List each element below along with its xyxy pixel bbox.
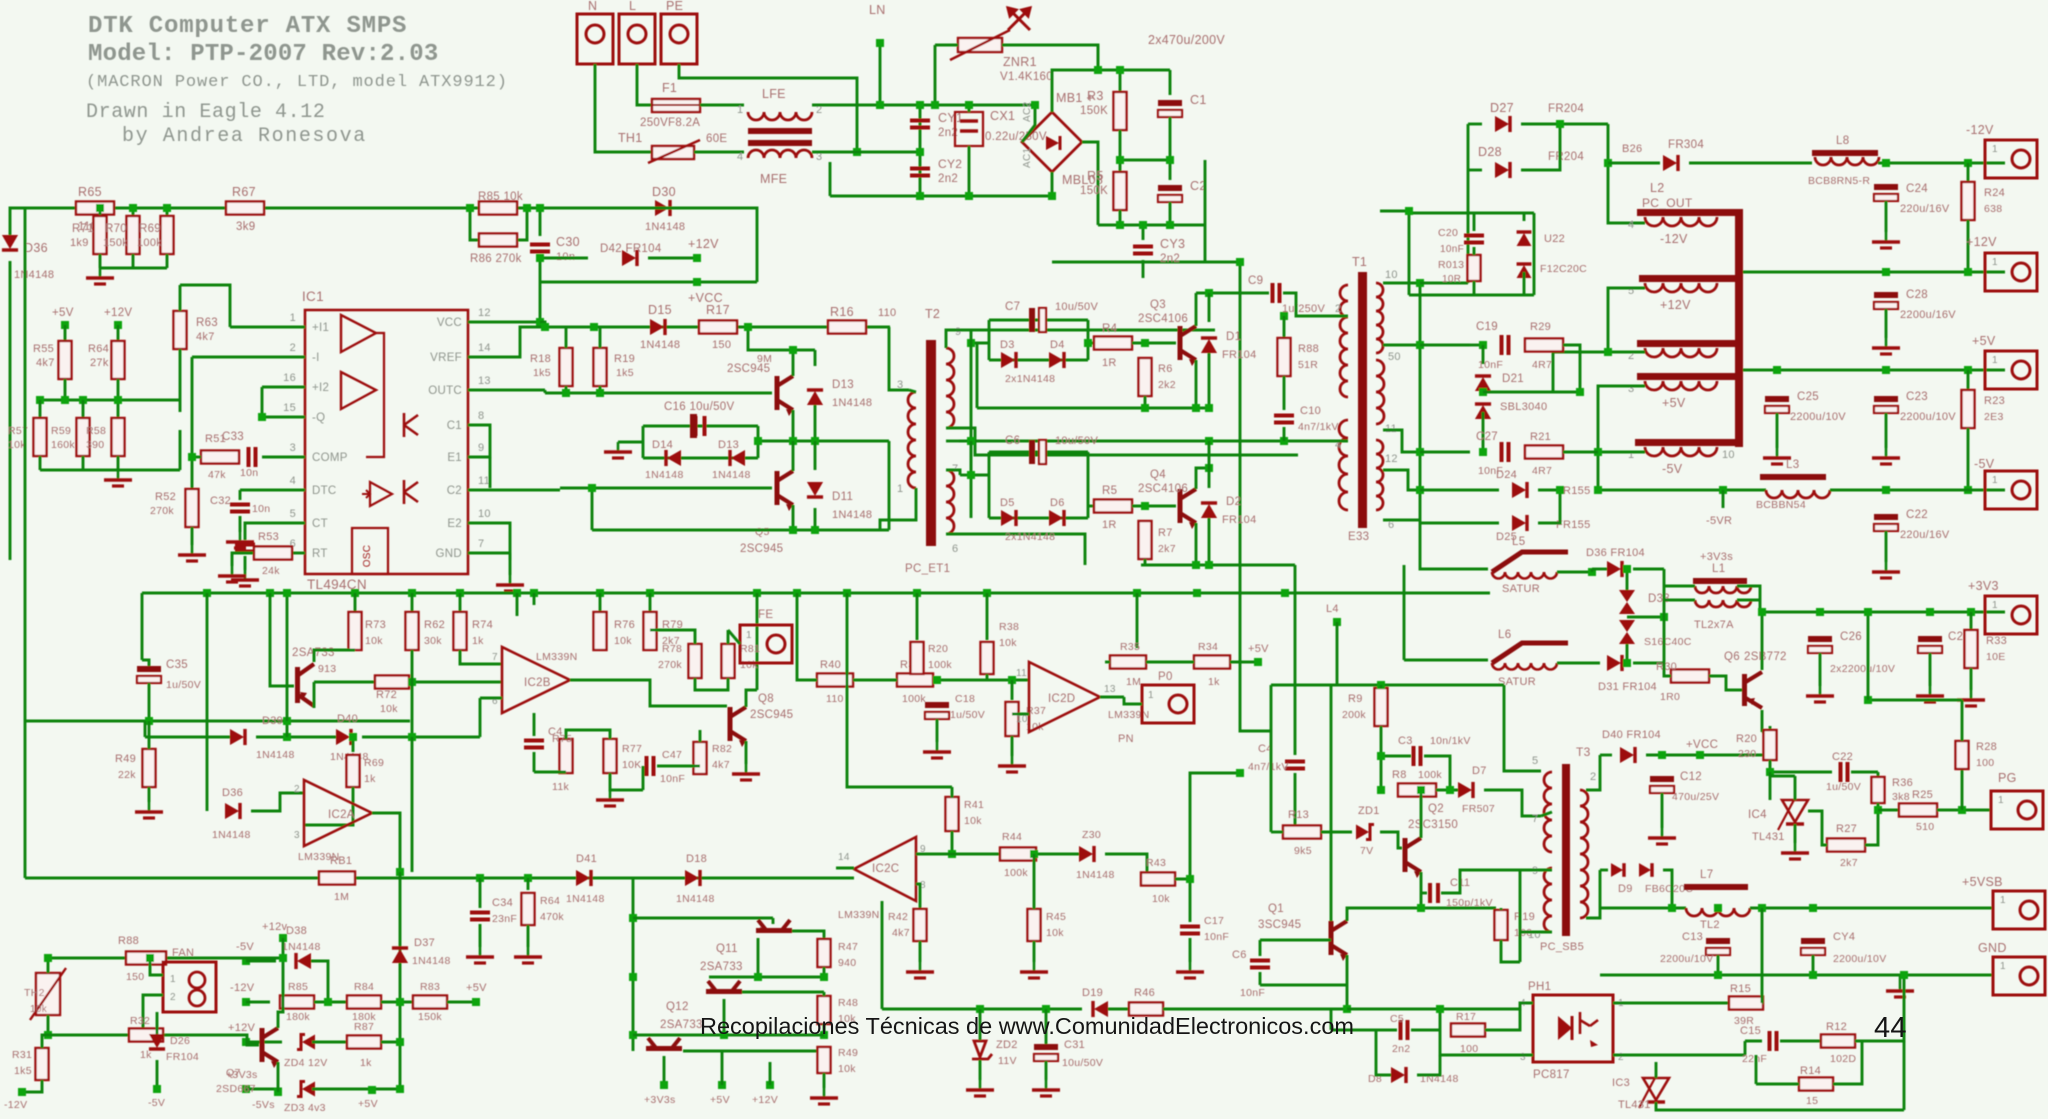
wire -12V out a: [1608, 162, 1660, 165]
wire x: [1722, 599, 1725, 602]
svg-text:+12V: +12V: [688, 237, 719, 251]
wire R35 out: [1146, 661, 1168, 664]
wire rail593 left drop: [141, 593, 144, 660]
wire Q12 base to R48: [742, 991, 824, 994]
wire TH2 top: [47, 958, 50, 973]
wire R44 out: [1036, 853, 1079, 856]
error amplifier 2 inside IC1: [341, 372, 376, 409]
junction ZD3/D37: [396, 1085, 404, 1093]
node +3V3s: [660, 1081, 668, 1089]
wire Q2 collector up: [1420, 790, 1423, 838]
svg-text:C24: C24: [1906, 183, 1928, 195]
wire stub: [539, 257, 542, 260]
svg-text:3: 3: [294, 830, 300, 841]
wire R78 top: [650, 630, 695, 644]
wire D28 lead: [1468, 169, 1482, 172]
svg-text:+12V: +12V: [104, 307, 132, 319]
wire plus up: [1097, 45, 1100, 70]
svg-text:L6: L6: [1498, 629, 1511, 641]
diode D11: [807, 482, 823, 497]
wire Q1 coll row: [1347, 908, 1421, 921]
ground R64: [514, 947, 542, 963]
junction R55 bottom: [61, 396, 69, 404]
varistor ZNR1: [950, 30, 1010, 60]
svg-text:3k9: 3k9: [236, 221, 255, 233]
ground divider: [86, 268, 114, 284]
shunt regulator IC4 TL431: [1778, 798, 1808, 830]
junction snub mid: [754, 437, 762, 445]
svg-text:CY2: CY2: [938, 157, 962, 171]
wire TH2 bottom: [47, 1015, 50, 1035]
ground C22b: [1872, 562, 1900, 578]
wire far-left bus: [24, 208, 27, 878]
wire Q2 collector: [792, 441, 795, 471]
svg-text:R38: R38: [999, 621, 1019, 633]
wire R70 bottom: [132, 254, 135, 268]
transformer T2 core: [926, 340, 936, 546]
thermistor TH1: [648, 140, 700, 163]
svg-text:IC2B: IC2B: [524, 677, 551, 689]
wire R3-R5: [1119, 130, 1122, 172]
wire D21 mid out: [1483, 391, 1580, 394]
wire Q8 collector: [746, 690, 757, 707]
node +5V e: [472, 998, 480, 1006]
junction C35/721: [145, 717, 153, 725]
svg-text:+5V: +5V: [358, 1098, 378, 1110]
junction R23 bottom: [1964, 486, 1972, 494]
svg-text:160k: 160k: [51, 439, 75, 451]
svg-text:R58: R58: [86, 425, 106, 437]
junction CY2 bottom: [916, 192, 924, 200]
svg-text:L: L: [629, 0, 636, 13]
svg-text:R63: R63: [196, 317, 218, 329]
resistor R44: [1000, 848, 1036, 861]
capacitor C19: [1502, 335, 1509, 355]
transistor Q2 2SC945: [775, 471, 794, 511]
svg-text:1N4148: 1N4148: [212, 829, 251, 841]
wire C1 top: [1169, 70, 1172, 95]
svg-text:+I2: +I2: [312, 382, 329, 394]
wire D19 out: [1108, 1008, 1128, 1011]
wire w5-w2 series: [1608, 288, 1645, 352]
svg-text:7: 7: [492, 652, 498, 663]
wire snub row2 a: [1420, 451, 1470, 454]
inductor L3 winding: [1766, 490, 1830, 498]
junction box1 right: [1084, 339, 1092, 347]
wire D30 out: [1633, 568, 1664, 571]
ground C28: [1872, 338, 1900, 354]
connector -12V: [1985, 140, 2037, 178]
junction emitter mid: [789, 437, 797, 445]
wire R88-C10: [1283, 376, 1286, 410]
svg-text:by Andrea Ronesova: by Andrea Ronesova: [122, 125, 367, 148]
svg-text:L4: L4: [1326, 603, 1339, 615]
resistor R30: [1671, 670, 1709, 683]
wire box1 to rail: [976, 343, 979, 408]
wire IC2C apex stub: [836, 867, 854, 870]
svg-text:R62: R62: [424, 619, 445, 631]
ground C23: [1872, 448, 1900, 464]
wire pin10 E2: [468, 523, 510, 560]
wire T2 prim bottom: [880, 488, 916, 530]
wire C10 bottom: [1283, 427, 1286, 441]
wire gnd drop: [509, 553, 512, 575]
wire pins 8-9: [468, 425, 490, 457]
wire R36 top: [1877, 772, 1880, 778]
junction CX1 bottom: [965, 192, 973, 200]
svg-text:L5: L5: [1512, 536, 1525, 548]
inductor L8 winding: [1815, 157, 1879, 165]
svg-text:3k8: 3k8: [1892, 791, 1910, 803]
capacitor CX1: [955, 112, 983, 146]
svg-text:47k: 47k: [208, 469, 226, 481]
resistor R35: [1110, 656, 1146, 669]
wire T1 pin2 in: [1330, 315, 1348, 318]
svg-text:C13: C13: [1682, 931, 1703, 943]
svg-text:10n: 10n: [252, 503, 270, 515]
svg-text:BCBBN54: BCBBN54: [1756, 499, 1806, 511]
wire Q11 base to R47: [792, 931, 824, 938]
svg-text:IC2A: IC2A: [328, 809, 355, 821]
junction R7 top: [1141, 502, 1149, 510]
transformer T1 secondary 1: [1376, 283, 1383, 353]
svg-text:RT: RT: [312, 548, 328, 560]
svg-text:C30: C30: [556, 235, 580, 249]
resistor R62: [406, 612, 419, 650]
svg-text:1k5: 1k5: [616, 367, 634, 379]
capacitor CY3: [1133, 247, 1153, 254]
resistor R39: [897, 674, 933, 687]
wire R58 top: [117, 400, 120, 418]
svg-text:15: 15: [283, 402, 296, 414]
svg-text:R78: R78: [662, 643, 682, 655]
svg-text:C3: C3: [1398, 735, 1413, 747]
wire R36 bottom: [1877, 803, 1880, 810]
svg-text:R87: R87: [354, 1021, 374, 1033]
junction R15 top: [1758, 904, 1766, 912]
inductor L2 bar w2: [1637, 340, 1735, 347]
ground CT: [231, 570, 259, 586]
svg-text:2n2: 2n2: [1392, 1043, 1410, 1055]
wire left drop 530: [591, 488, 594, 530]
wire v412 down: [411, 737, 414, 872]
svg-text:+3V3s: +3V3s: [644, 1094, 676, 1106]
svg-text:3: 3: [897, 379, 903, 391]
wire to IC2C: [710, 877, 854, 880]
junction C23 top: [1882, 366, 1890, 374]
wire vcc to rail: [540, 322, 545, 327]
wire F1 to LFE: [700, 104, 744, 107]
svg-text:100k: 100k: [902, 693, 926, 705]
svg-text:4: 4: [1628, 219, 1634, 231]
junction fb: [188, 453, 196, 461]
wire Q2 emitter down: [1420, 872, 1423, 893]
svg-text:C17: C17: [1204, 915, 1224, 927]
ground C26: [1806, 686, 1834, 702]
junction ZNR1 rail: [931, 101, 939, 109]
junction PH1 pin3: [1436, 1005, 1444, 1013]
resistor R70: [127, 216, 140, 254]
junction R71 top: [96, 204, 104, 212]
svg-text:+I1: +I1: [312, 322, 329, 334]
junction Q6 coll node: [1766, 751, 1774, 759]
wire long rail 593: [142, 592, 1490, 595]
resistor R25: [1899, 804, 1937, 817]
svg-text:FR204: FR204: [1548, 151, 1584, 163]
svg-text:C2: C2: [447, 485, 462, 497]
svg-text:2200u/10V: 2200u/10V: [1790, 411, 1846, 423]
svg-text:10: 10: [1385, 269, 1398, 281]
svg-text:-5V: -5V: [1662, 462, 1683, 476]
junction rail-R19: [590, 323, 598, 331]
svg-text:7: 7: [1532, 813, 1538, 825]
svg-text:22k: 22k: [118, 769, 136, 781]
junction Q6 emitter: [1758, 608, 1766, 616]
wire tap10 link: [1420, 282, 1468, 285]
wire ZD4 in: [246, 1041, 282, 1044]
svg-text:-I: -I: [312, 352, 320, 364]
wire 534 stub: [533, 593, 536, 605]
svg-text:1u/50V: 1u/50V: [1826, 781, 1861, 793]
svg-text:913: 913: [318, 663, 336, 675]
resistor R24: [1962, 182, 1975, 220]
svg-text:R28: R28: [1976, 741, 1997, 753]
svg-text:60E: 60E: [706, 133, 727, 145]
wire Q11 coll: [772, 918, 775, 924]
svg-text:CT: CT: [312, 518, 328, 530]
wire pin15: [262, 387, 305, 417]
junction D33 bottom: [1623, 659, 1631, 667]
resistor R18: [560, 348, 573, 386]
junction C22 top: [1882, 486, 1890, 494]
wire q7 em stub: [277, 1085, 280, 1092]
wire R49 top: [148, 721, 151, 749]
resistor R4: [1094, 337, 1132, 350]
wire R81 top: [727, 630, 730, 644]
junction tap12: [1416, 486, 1424, 494]
junction 1137: [1133, 589, 1141, 597]
svg-text:0.22u/250V: 0.22u/250V: [985, 131, 1047, 143]
svg-text:4k7: 4k7: [892, 927, 910, 939]
svg-text:1R: 1R: [1102, 357, 1117, 369]
ground Q8: [732, 764, 760, 780]
diode D15: [650, 319, 665, 335]
wire pin11 C2: [468, 489, 560, 492]
svg-text:BCB8RN5-R: BCB8RN5-R: [1808, 175, 1870, 187]
svg-text:LN: LN: [869, 3, 886, 17]
wire Q12 emitter: [723, 999, 726, 1035]
wire snub row2 b: [1563, 451, 1598, 454]
junction D1 top: [1205, 289, 1213, 297]
svg-text:R16: R16: [830, 305, 854, 319]
wire C12 bottom: [1661, 793, 1664, 828]
wire Q2 emitter: [792, 505, 795, 530]
svg-text:100: 100: [1976, 757, 1994, 769]
junction R69 top: [163, 204, 171, 212]
wire C6b top: [1259, 940, 1262, 956]
resistor R67: [226, 202, 264, 215]
junction Q2 emitter: [789, 526, 797, 534]
wire C34 bottom: [479, 924, 482, 947]
junction fan pin1: [146, 954, 154, 962]
svg-text:ZD4 12V: ZD4 12V: [284, 1057, 328, 1069]
capacitor C12: [1650, 776, 1674, 793]
capacitor C3: [1414, 746, 1421, 766]
svg-text:2SB772: 2SB772: [1744, 651, 1787, 663]
wire R79 top: [649, 593, 652, 612]
capacitor C4: [524, 741, 544, 748]
wire c4 stub: [516, 593, 519, 616]
resistor R17: [699, 321, 737, 334]
svg-text:D6: D6: [1050, 497, 1065, 509]
svg-text:(MACRON Power CO., LTD, model: (MACRON Power CO., LTD, model ATX9912): [86, 73, 508, 92]
svg-text:R47: R47: [838, 941, 858, 953]
resistor R5b: [1094, 500, 1132, 513]
svg-text:1u/50V: 1u/50V: [950, 709, 985, 721]
junction plus: [1094, 66, 1102, 74]
svg-text:C22: C22: [1832, 751, 1853, 763]
op-amp IC1 TL494CN box: [305, 310, 468, 574]
svg-text:10k: 10k: [30, 1004, 48, 1015]
wire IC2A out: [372, 813, 400, 872]
junction R76 rail: [596, 589, 604, 597]
junction box2: [967, 471, 975, 479]
svg-text:200k: 200k: [1342, 709, 1366, 721]
wire R76 top: [599, 593, 602, 612]
wire ZNR1 left drop: [934, 45, 937, 105]
wire c5 row in: [1331, 1029, 1376, 1032]
wire R55 top: [64, 325, 67, 341]
svg-text:N: N: [588, 0, 597, 13]
capacitor C31: [1034, 1044, 1058, 1061]
wire D21 lead: [1482, 345, 1485, 364]
wire R41 bottom: [951, 831, 954, 854]
wire R18 top: [565, 327, 568, 348]
wire D33 top lead: [1626, 569, 1629, 590]
resistor R85: [479, 202, 517, 215]
ground C24: [1872, 232, 1900, 248]
svg-text:9M: 9M: [757, 353, 772, 365]
wire C4 top: [533, 713, 536, 736]
svg-text:250VF8.2A: 250VF8.2A: [640, 117, 700, 129]
svg-text:2SA733: 2SA733: [660, 1019, 703, 1031]
svg-text:R20: R20: [1736, 733, 1757, 745]
wire R69b top: [352, 737, 355, 752]
wire CY3 bottom: [1142, 260, 1145, 278]
wire IC4 k: [1794, 776, 1797, 800]
connector -5V: [1985, 471, 2037, 509]
capacitor C20: [1464, 236, 1484, 243]
wire D13 top lead: [814, 350, 817, 366]
svg-text:4k7: 4k7: [36, 357, 55, 369]
svg-text:2n2: 2n2: [1160, 253, 1180, 265]
wire R27 up: [1865, 810, 1878, 845]
svg-text:2n2: 2n2: [938, 173, 958, 185]
svg-text:2SC945: 2SC945: [750, 709, 793, 721]
wire R28 top: [1961, 700, 1964, 741]
junction D42 left: [536, 254, 544, 262]
svg-text:11V: 11V: [998, 1055, 1017, 1067]
resistor R85: [280, 996, 314, 1009]
ground R49c: [810, 1088, 838, 1104]
wire R74 to in1: [460, 650, 502, 664]
junction C14 gnd: [1809, 971, 1817, 979]
junction VCC: [536, 318, 544, 326]
svg-text:Drawn in Eagle 4.12: Drawn in Eagle 4.12: [86, 101, 325, 124]
wire R4 to Q3: [1132, 342, 1176, 345]
inductor LFE winding 2: [748, 150, 812, 158]
transformer T2 primary: [908, 392, 916, 488]
wire 207 drop: [206, 593, 209, 811]
transistor Q7 2SD667 sym: [260, 1028, 279, 1068]
svg-text:DTK Computer ATX SMPS: DTK Computer ATX SMPS: [88, 13, 407, 40]
junction R41/in1: [948, 850, 956, 858]
svg-text:Q2: Q2: [1428, 803, 1444, 815]
junction C2 bottom: [1166, 221, 1174, 229]
wire R17b out: [1485, 1009, 1520, 1030]
wire in2 drop: [479, 698, 482, 737]
svg-text:D9: D9: [1618, 883, 1633, 895]
wire IC2C in2: [916, 884, 920, 909]
transformer T1 primary top: [1340, 285, 1348, 397]
connector FE: [740, 625, 792, 663]
wire R31 bottom: [22, 1080, 42, 1092]
svg-text:1u/50V: 1u/50V: [166, 679, 201, 691]
wire snub row1 b: [1563, 345, 1580, 392]
junction C34 top: [476, 874, 484, 882]
capacitor C22b: [1874, 514, 1898, 531]
transformer T3 primary: [1544, 772, 1552, 852]
wire R37 stub: [1011, 680, 1014, 700]
svg-text:R45: R45: [1046, 911, 1066, 923]
junction R19 bottom: [596, 389, 604, 397]
diode D40b: [336, 729, 351, 745]
wire +5V stub up: [721, 1051, 724, 1085]
wire Q1 emitter: [792, 410, 795, 441]
wire C17 top: [1189, 879, 1192, 922]
resistor R3: [1114, 92, 1127, 130]
svg-text:2x1N4148: 2x1N4148: [1005, 373, 1055, 385]
junction C13 gnd: [1714, 971, 1722, 979]
wire ZNR1 left: [935, 44, 958, 47]
wire fb node: [191, 357, 194, 490]
diode D37 sym: [392, 948, 408, 963]
wire C34 lead: [479, 878, 482, 908]
junction LN rail: [876, 101, 884, 109]
ground R49: [135, 802, 163, 818]
svg-text:FAN: FAN: [172, 947, 194, 959]
junction D38/R85: [324, 998, 332, 1006]
node -5Vs: [274, 1088, 282, 1096]
resistor R61: [319, 872, 355, 885]
wire R30 to Q6: [1709, 676, 1742, 690]
svg-text:+VCC: +VCC: [1686, 739, 1718, 751]
svg-text:FR104: FR104: [166, 1051, 199, 1063]
wire T2 sec2 bottom: [946, 534, 1085, 565]
svg-text:C6: C6: [1005, 435, 1020, 447]
diode D20: [1079, 846, 1094, 862]
junction R18 bottom: [562, 389, 570, 397]
wire tap10: [1383, 282, 1420, 285]
svg-text:100k: 100k: [928, 659, 952, 671]
svg-text:1N4148: 1N4148: [640, 339, 680, 351]
ground rail: [1886, 975, 1914, 997]
wire D31 out: [1633, 662, 1664, 665]
junction PE/CY mid: [853, 148, 861, 156]
svg-text:D31 FR104: D31 FR104: [1598, 681, 1657, 693]
wire box2 rightv: [1087, 452, 1090, 518]
svg-text:PE: PE: [666, 0, 683, 13]
